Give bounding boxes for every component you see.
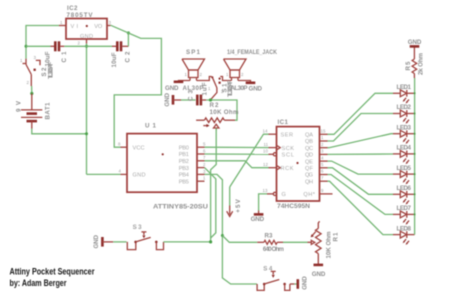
svg-text:9V: 9V: [15, 100, 22, 112]
svg-text:GND: GND: [251, 216, 265, 223]
ground GND left of C3 (rotated): [164, 93, 173, 107]
svg-text:11: 11: [264, 142, 269, 147]
ground GND under SP1: [165, 82, 183, 92]
svg-text:PB1: PB1: [179, 152, 189, 158]
ground GND under jack: [246, 83, 263, 93]
LED LED6: [393, 185, 415, 205]
node bus junctions: [414, 92, 416, 215]
svg-text:RCK: RCK: [281, 166, 294, 172]
svg-text:S3: S3: [133, 224, 143, 231]
wire GND to U1 pin4: [87, 173, 121, 175]
LED LED4: [393, 145, 415, 165]
voltage regulator IC2 7805TV: [59, 5, 112, 45]
svg-text:QB: QB: [305, 139, 313, 145]
svg-text:GND: GND: [165, 85, 179, 92]
node battery plus: [30, 92, 33, 95]
svg-text:13: 13: [263, 188, 268, 193]
svg-text:QG: QG: [305, 173, 313, 179]
node audio junction: [209, 98, 212, 101]
svg-text:R2: R2: [210, 102, 220, 109]
svg-text:QH: QH: [305, 179, 313, 185]
svg-text:GND: GND: [80, 34, 93, 40]
ground GND under IC1: [251, 211, 265, 224]
svg-text:GND: GND: [301, 276, 308, 290]
wire R3 to R1 wiper: [283, 241, 308, 243]
ground GND right of S4 (rotated): [298, 276, 309, 290]
svg-text:1uF: 1uF: [202, 82, 209, 95]
svg-text:PB3: PB3: [179, 166, 189, 172]
wire SP1 pin2 to S1: [197, 77, 212, 81]
svg-text:10K Ohm: 10K Ohm: [325, 231, 332, 258]
capacitor C2 10uF: [111, 41, 132, 67]
svg-text:15: 15: [321, 129, 326, 134]
wire +5V rail from IC2 VO to U1 VCC: [111, 25, 162, 147]
svg-text:GND: GND: [133, 173, 146, 179]
microcontroller U1 ATTINY85-20SU: [118, 123, 209, 211]
battery BAT1 9V: [15, 94, 51, 129]
wire IC1 G to ground: [259, 194, 267, 211]
ground GND above R5: [408, 39, 422, 47]
wire PB2 to RCK: [205, 161, 269, 168]
wire branch to R3: [222, 236, 257, 243]
svg-text:QA: QA: [305, 133, 313, 139]
pushbutton S3: [102, 224, 163, 250]
svg-text:LED5: LED5: [397, 165, 412, 172]
svg-text:PB4: PB4: [179, 173, 189, 179]
LED LED3: [393, 124, 415, 144]
svg-text:Attiny Pocket Sequencer: Attiny Pocket Sequencer: [10, 267, 95, 277]
node C2/+5V junction: [127, 31, 130, 34]
node PB4 branch to R3: [221, 234, 224, 237]
svg-text:TL3305AF: TL3305AF: [227, 80, 234, 97]
LED LED1: [393, 84, 415, 104]
LED LED7: [393, 205, 415, 225]
wire QC to LED3: [328, 134, 394, 148]
wire GND vertical from IC2 pin2 down to U1 GND: [86, 44, 88, 175]
wire QA to LED1: [328, 93, 394, 134]
wire PB3 down to S3 row: [205, 168, 216, 238]
svg-text:14: 14: [263, 128, 268, 133]
wire SP1 pin1 to ground: [179, 81, 191, 82]
svg-text:640 Ohm: 640 Ohm: [263, 246, 284, 253]
svg-text:R3: R3: [265, 233, 274, 240]
svg-text:7805TV: 7805TV: [67, 12, 94, 19]
node S3 net junction: [209, 240, 212, 243]
wire jack pin2 to ground: [238, 81, 251, 82]
capacitor C1 10uF: [45, 41, 69, 66]
wire QE to LED5: [328, 161, 394, 174]
wire S2 to battery: [31, 86, 33, 93]
jack X1 1/4_FEMALE_JACK: [224, 49, 278, 92]
svg-text:R5: R5: [405, 61, 412, 71]
svg-text:PB2: PB2: [179, 159, 189, 165]
wire jack pin1 to S1: [220, 77, 231, 81]
wire C3 to R2 loop: [206, 100, 237, 120]
svg-text:LED7: LED7: [397, 205, 412, 212]
wire battery minus to GND vertical: [32, 129, 87, 134]
svg-text:VCC: VCC: [133, 146, 145, 152]
svg-text:ATTINY85-20SU: ATTINY85-20SU: [153, 204, 209, 211]
svg-text:TL3305AF: TL3305AF: [48, 62, 55, 79]
wire QH to LED8: [328, 181, 394, 234]
node battery/GND junction: [85, 132, 88, 135]
LED LED8: [393, 225, 415, 245]
wire S3 to PB3 net: [164, 241, 211, 243]
svg-text:QH*: QH*: [303, 192, 315, 198]
svg-text:LED8: LED8: [397, 225, 412, 232]
potentiometer R2 10K Ohm: [196, 102, 239, 130]
node +9V/C1 junction: [25, 45, 28, 48]
node GND row junction: [85, 45, 88, 48]
wire C1 left segment: [26, 45, 51, 47]
svg-text:SCK: SCK: [282, 146, 295, 152]
svg-text:12: 12: [263, 162, 268, 167]
switch S2 TL3305AF: [20, 55, 55, 86]
svg-text:PB5: PB5: [179, 179, 189, 185]
svg-text:QC: QC: [305, 146, 313, 152]
wire LED cathode bus: [414, 78, 416, 235]
switch S1 speaker/jack select: [208, 76, 234, 100]
svg-text:10K Ohm: 10K Ohm: [210, 109, 239, 116]
svg-text:S4: S4: [263, 265, 273, 272]
svg-text:R1: R1: [333, 232, 340, 242]
svg-text:10: 10: [263, 149, 268, 154]
svg-text:G: G: [282, 192, 286, 198]
wire R2 wiper down to S3 row: [211, 128, 217, 242]
wire QD to LED4: [328, 153, 394, 155]
svg-text:SCL: SCL: [282, 153, 295, 159]
svg-text:74HC595N: 74HC595N: [277, 203, 311, 210]
svg-text:LED1: LED1: [397, 84, 412, 91]
svg-text:QD: QD: [305, 153, 313, 159]
wire +9V switched rail top: [26, 26, 59, 59]
svg-text:IC1: IC1: [278, 119, 289, 126]
wire PB0 to SCK: [205, 146, 269, 148]
resistor R3 640 Ohm: [257, 233, 284, 254]
resistor R5 2k Ohm: [405, 47, 424, 78]
svg-text:GND: GND: [164, 93, 171, 107]
svg-text:+5V: +5V: [235, 198, 242, 212]
svg-text:LED4: LED4: [397, 145, 412, 152]
svg-text:SER: SER: [281, 132, 294, 138]
svg-text:GND: GND: [408, 39, 422, 46]
power +5V symbol: [227, 187, 243, 216]
LED LED2: [393, 104, 415, 124]
ground GND under R1: [312, 265, 326, 278]
wire PB4 down to R3/S4: [205, 174, 258, 284]
ground GND left of S3 (rotated): [93, 235, 103, 249]
svg-text:QE: QE: [305, 159, 313, 165]
svg-text:GND: GND: [93, 235, 100, 249]
shift register IC1 74HC595N: [263, 119, 333, 210]
svg-text:LED6: LED6: [397, 185, 412, 192]
svg-text:QF: QF: [305, 166, 314, 172]
pushbutton S4: [257, 265, 298, 290]
wire PB1 to SCL: [205, 153, 269, 155]
wire QG to LED7: [328, 175, 394, 215]
svg-text:10uF: 10uF: [111, 52, 118, 67]
svg-text:by: Adam Berger: by: Adam Berger: [10, 278, 67, 288]
wire C1 to GND junction: [64, 45, 112, 47]
svg-text:1/4_FEMALE_JACK: 1/4_FEMALE_JACK: [227, 49, 277, 56]
svg-text:PB0: PB0: [179, 145, 189, 151]
svg-text:VO: VO: [94, 24, 103, 30]
svg-text:2k Ohm: 2k Ohm: [417, 53, 424, 75]
svg-text:LED2: LED2: [397, 104, 412, 111]
svg-text:GND: GND: [249, 86, 263, 93]
wire QB to LED2: [328, 114, 394, 142]
wire QF to LED6: [328, 168, 394, 195]
svg-text:LED3: LED3: [397, 124, 412, 131]
wire +5V to SER diagonal: [230, 134, 269, 187]
svg-text:BAT1: BAT1: [44, 102, 51, 120]
wire C2 up to +5V diagonal: [127, 33, 129, 46]
potentiometer R1 10K Ohm: [308, 221, 340, 264]
capacitor C3 1uF: [173, 82, 209, 105]
svg-text:IC2: IC2: [67, 5, 78, 12]
svg-text:SP1: SP1: [186, 49, 201, 56]
LED LED5: [393, 165, 415, 185]
speaker SP1 AL30P: [182, 49, 205, 92]
svg-text:GND: GND: [312, 271, 326, 278]
